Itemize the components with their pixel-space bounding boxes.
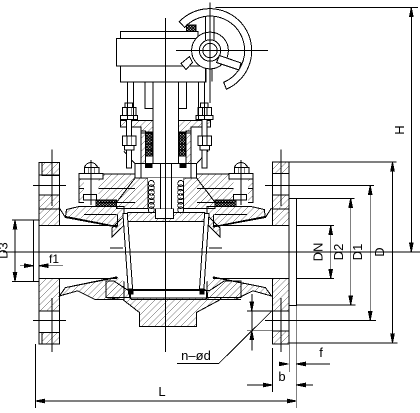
svg-text:L: L [158,384,165,399]
left neck inner slopes [65,216,120,287]
hatched mass: seat band [106,281,241,298]
housing lid [121,31,199,38]
left flange raised face [33,220,39,281]
stem upper (wide) [153,82,178,164]
spring right [178,181,184,213]
right neck inner slopes [211,216,265,287]
packing right [179,132,185,156]
hatched mass: right flange plate [273,162,290,344]
plug leg right [200,214,210,290]
bonnet cone hatched right [184,178,215,209]
handwheel rim [179,9,251,90]
dimension f1 [20,264,63,268]
plug foot pads black [128,289,133,294]
hatched mass: left neck top wall [65,207,124,232]
right flange raised face [289,198,296,305]
gland bolt left [120,103,137,168]
hatched mass: right neck bottom wall [207,277,272,300]
svg-text:b: b [278,369,285,384]
packing follower black right [179,164,186,168]
body cavity white [117,213,213,283]
housing base [121,66,206,82]
centerline horizontal pipe [3,251,420,253]
yoke legs [127,82,204,119]
dimension H [401,8,420,253]
hatched mass: left flange plate [39,162,59,344]
dimension D2 [296,198,355,305]
body-bonnet gasket right [215,200,236,207]
stuffing box flange [135,164,197,178]
plug stem boss [156,209,174,219]
centerline vertical main [165,18,167,352]
handwheel vertical spoke [205,16,214,40]
body shoulder lines [84,214,247,216]
left bore lines [39,226,117,279]
svg-text:f: f [319,345,323,360]
hatched mass: bonnet/body flange band [79,174,253,203]
handwheel left spoke [181,57,193,70]
packing follower black left [145,164,152,168]
right hub step [265,208,271,296]
n-od leader [177,311,272,364]
right flange bolt hole axis [280,150,282,353]
handwheel right spoke [217,56,242,71]
right bore lines [213,226,289,279]
gland flange right [178,121,210,134]
stuffing box walls [141,131,146,164]
packing left [146,132,152,156]
bonnet cone hatched left [117,178,148,209]
body bottom outline [95,300,241,327]
right flange plate outline [273,162,290,344]
dimension bolt hole od [247,294,273,351]
dimension L [36,344,297,408]
svg-text:D3: D3 [0,242,11,259]
left hub step [59,208,65,296]
centerline vertical wheel [209,3,211,104]
left flange plate outline [39,162,59,344]
body-bonnet gasket left [96,200,116,207]
hatched mass: drain boss [106,298,221,327]
yoke inner columns [145,82,187,109]
bonnet bolt holes white [84,174,99,204]
top reference line [216,7,418,9]
svg-text:D: D [372,247,387,256]
wheel shaft below [205,69,212,82]
seat ring lines [110,247,222,249]
hatched mass: right neck top wall [207,207,265,232]
svg-text:H: H [392,125,407,134]
gland lug slopes [124,151,208,164]
bonnet bolt right [229,162,253,200]
svg-text:f1: f1 [49,252,59,266]
dimension f [279,306,330,408]
gland bolt right [196,103,213,168]
svg-text:n–ød: n–ød [181,348,211,363]
dimension DN [296,226,334,279]
gland flange left [121,121,154,134]
dimension D [289,162,397,343]
svg-text:DN: DN [311,243,326,262]
housing body [116,39,201,67]
bonnet bolt left [79,162,103,200]
svg-text:D1: D1 [350,244,365,261]
left flange bolt hole axis [33,150,66,353]
spring left [148,181,154,213]
hatched mass: bridge band [112,212,220,237]
housing lid hatch bit [187,25,197,31]
handwheel disc [192,32,229,69]
centerline horizontal wheel [176,50,268,52]
handwheel hub [199,40,220,61]
hatched mass: left neck bottom wall [59,277,124,300]
stem lower [161,164,172,209]
center white (spring chamber + stem) [135,170,197,214]
dimension D1 [265,186,376,321]
spring chamber white [148,178,184,209]
dimension D3 [12,220,39,281]
dimension b [247,348,313,392]
seat white bar (plug foot) [130,290,207,299]
plug leg left [123,214,133,290]
svg-text:D2: D2 [331,244,346,261]
